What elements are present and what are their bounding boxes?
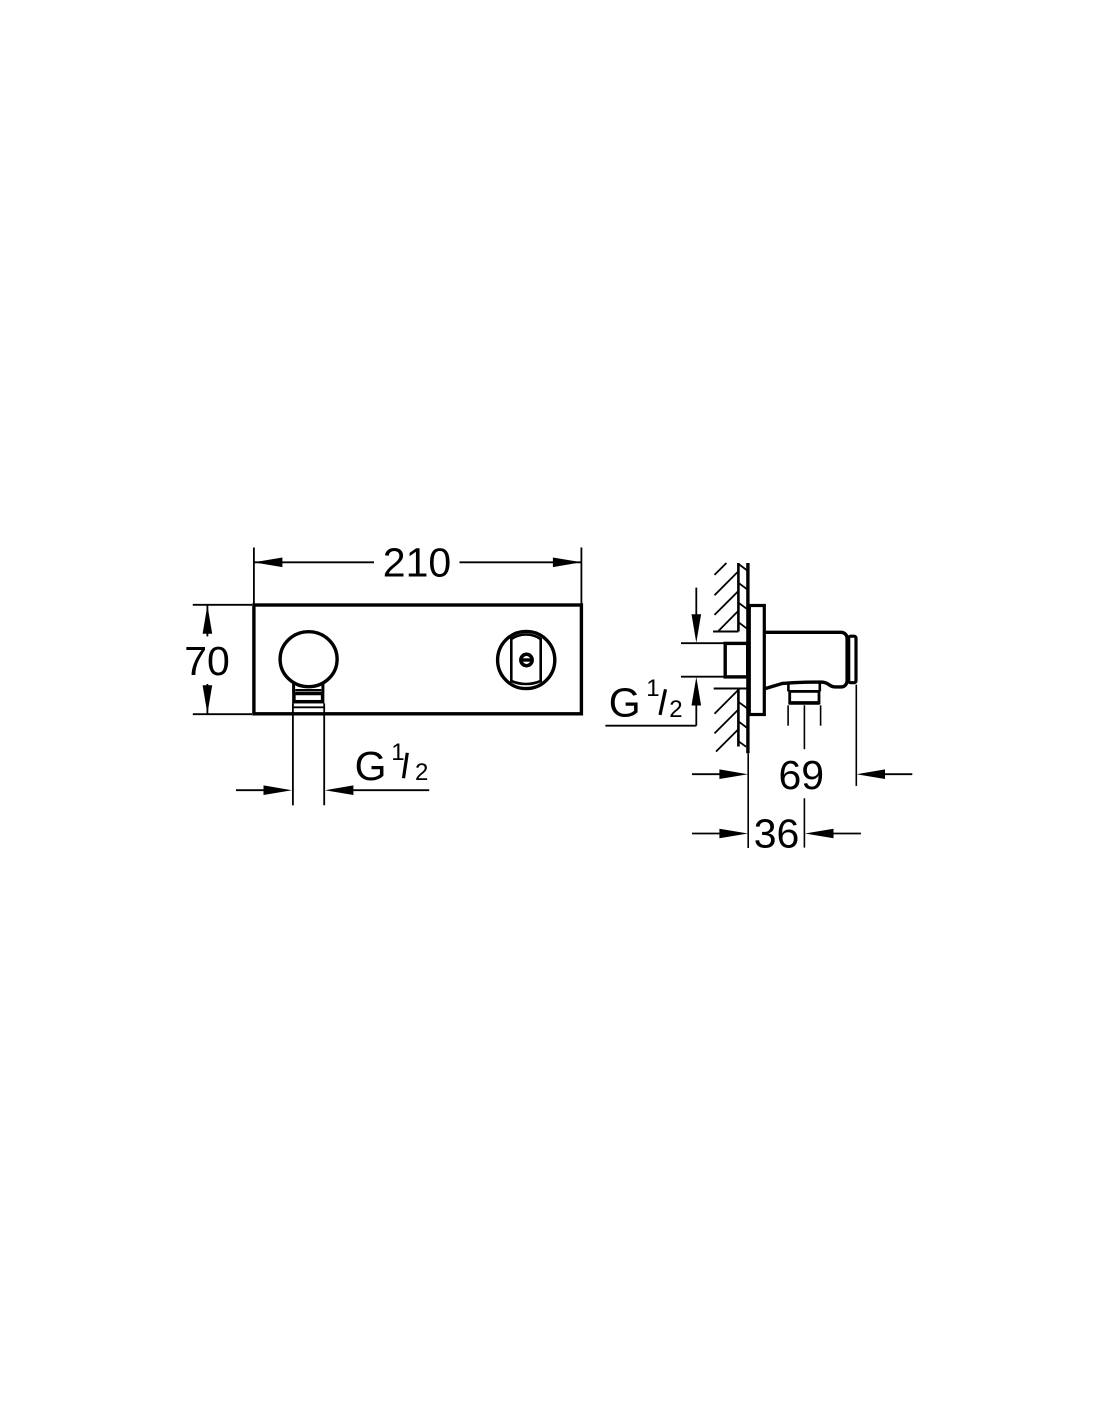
outlet extension line right (820, 705, 822, 725)
dim 70 lower arrow (206, 684, 208, 714)
knob screw circle (521, 654, 532, 665)
dim G1/2 front: label slash (404, 753, 408, 778)
wall hatching upper (715, 563, 739, 632)
dim 36 left arrow (692, 833, 720, 835)
dim 210 line right segment (460, 561, 582, 563)
svg-text:210: 210 (383, 540, 451, 586)
finish layer hatching upper (738, 564, 748, 629)
outlet center line upper (803, 705, 805, 749)
dim 210 line left segment (254, 561, 374, 563)
dim G1/2 front: dim line right segment (353, 789, 429, 791)
dim 36 right arrow (833, 833, 861, 835)
dim G1/2 front: dim line left segment (236, 789, 265, 791)
holder body (764, 632, 847, 689)
knob screw slot (520, 658, 532, 661)
dim G1/2 front: arrowhead onto right pipe line (325, 785, 354, 795)
dim G1/2 side: lower arrow (695, 705, 697, 726)
outlet spout side: nut box (790, 691, 819, 703)
hook neck right line (321, 683, 324, 693)
svg-text:2: 2 (415, 759, 428, 786)
svg-text:1: 1 (646, 675, 659, 702)
outlet pipe extension line right (323, 707, 325, 805)
shower hook ball (280, 632, 337, 687)
dim 70 upper arrow (206, 605, 208, 636)
dim 69 right arrow (885, 773, 912, 775)
dim 69 left arrow (692, 773, 720, 775)
dim 70 extension line bottom (193, 713, 252, 715)
outlet spout side: left edge (787, 684, 790, 691)
wall niche bottom line (714, 688, 748, 690)
hook neck left line (292, 683, 295, 693)
svg-text:2: 2 (669, 696, 682, 723)
dim G1/2 side: leader underline (605, 725, 696, 727)
dim 210 arrowhead right (553, 558, 582, 568)
knob outer circle (498, 631, 555, 688)
outlet spout side: right edge (818, 683, 821, 691)
pipe stub extension line bottom (681, 676, 724, 678)
dim 210 extension line left (253, 548, 255, 604)
holder end cap (849, 636, 856, 683)
dim 210 extension line right (580, 548, 582, 604)
outlet center line lower (803, 798, 805, 847)
svg-text:1: 1 (391, 739, 404, 766)
outlet nut (294, 694, 323, 702)
outlet collar below nut (293, 703, 324, 707)
dim 70 extension line top (193, 604, 252, 606)
wall face line (746, 563, 749, 753)
wall niche top line (713, 631, 738, 633)
svg-text:36: 36 (754, 811, 800, 857)
dim G1/2 side: upper arrow (695, 588, 697, 617)
pipe stub extension line top (681, 642, 724, 644)
finish layer hatching lower (738, 702, 748, 747)
wall finish layer boundary lower (737, 689, 740, 747)
wall face extension line (747, 753, 749, 848)
wall hatching lower (715, 690, 739, 752)
front plate body (254, 605, 582, 714)
dim G1/2 side: label slash (660, 689, 666, 715)
supply pipe stub in wall (725, 643, 748, 677)
svg-text:70: 70 (184, 638, 230, 684)
hook neck shoulder line (295, 689, 321, 691)
svg-text:G: G (609, 679, 641, 725)
outlet spout side: nut bottom (789, 701, 820, 705)
dim 210 arrowhead left (254, 558, 283, 568)
knob handle stadium (511, 635, 540, 684)
svg-text:69: 69 (778, 752, 824, 798)
end cap extension line (855, 685, 857, 786)
svg-text:G: G (355, 743, 387, 789)
wall finish layer boundary upper (737, 563, 740, 632)
outlet spout side: shoulder (788, 690, 819, 692)
outlet pipe extension line left (292, 707, 294, 805)
outlet extension line left (787, 705, 789, 725)
escutcheon flange plate (749, 606, 764, 715)
dim G1/2 front: arrowhead onto left pipe line (264, 785, 293, 795)
